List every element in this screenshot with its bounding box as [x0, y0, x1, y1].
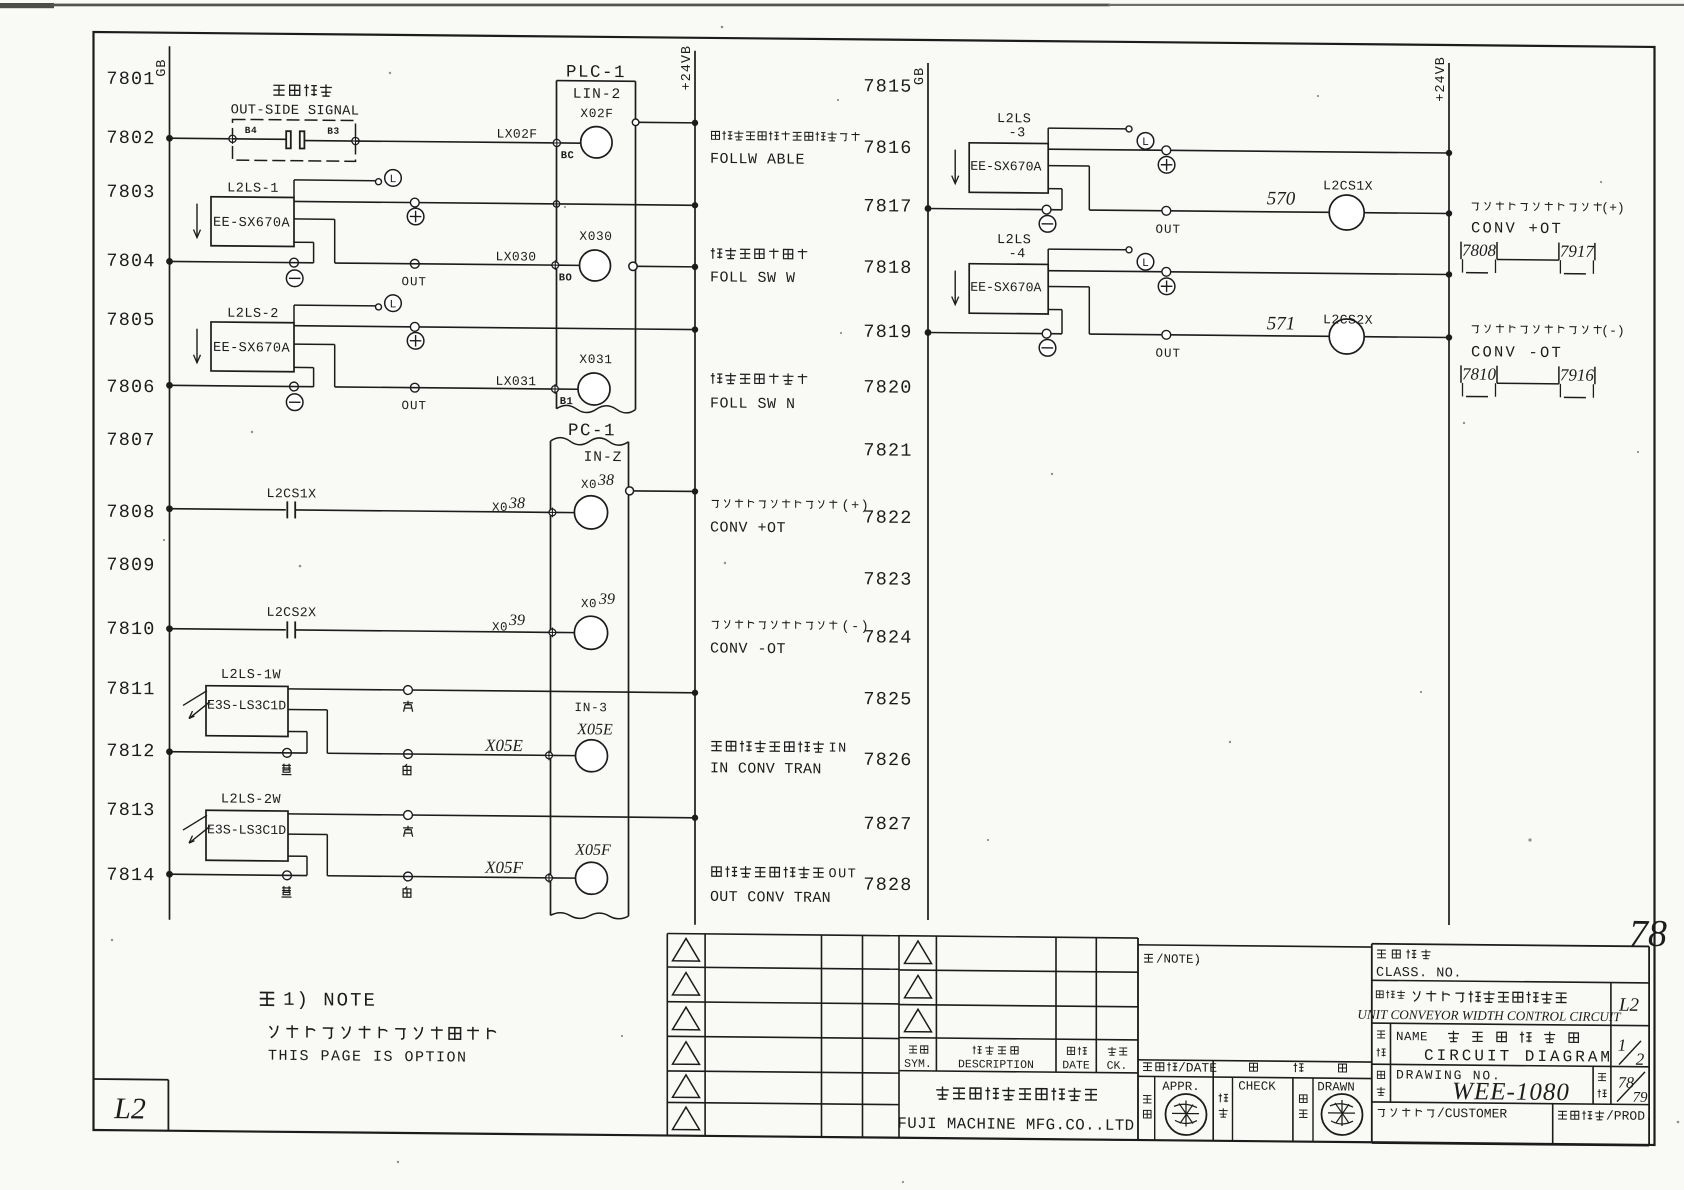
label black-wire L2LS-1W — [282, 764, 292, 775]
wire rung 7819 out segment — [1089, 334, 1329, 336]
page reference 7810 — [1461, 364, 1497, 396]
sensor L2LS-4 box — [969, 264, 1048, 314]
indicator lamp L L2LS-4 — [1137, 253, 1154, 270]
wire rung 7817 out segment — [1089, 210, 1329, 212]
rung label 7801 — [106, 69, 155, 90]
svg-text:7818: 7818 — [863, 257, 912, 278]
revision triangle L6 — [673, 1107, 700, 1130]
svg-text:-3: -3 — [1009, 126, 1026, 141]
svg-text:(+): (+) — [1601, 200, 1624, 215]
revision triangle L1 — [673, 938, 700, 961]
revision triangle L2 — [673, 972, 700, 995]
wire rung 7806 — [166, 382, 314, 390]
rung label 7818 — [863, 257, 912, 278]
svg-text:+24VB: +24VB — [1434, 56, 1449, 102]
svg-text:7916: 7916 — [1560, 365, 1594, 384]
svg-text:7803: 7803 — [106, 182, 155, 203]
label BC — [561, 150, 575, 162]
wire rung 7808 — [166, 505, 552, 516]
page reference 7808 — [1461, 241, 1497, 273]
label PLC-1 — [566, 63, 626, 84]
description conv+ot right english — [1471, 219, 1563, 238]
rung label 7820 — [863, 377, 912, 398]
wire rung 7804 out segment — [335, 263, 556, 265]
svg-text:L2CS2X: L2CS2X — [1323, 312, 1373, 327]
svg-text:L2CS2X: L2CS2X — [267, 605, 317, 620]
svg-text:-4: -4 — [1009, 247, 1026, 262]
label L2LS-2 — [227, 307, 279, 322]
rung label 7828 — [863, 875, 912, 896]
svg-text:/DATE: /DATE — [1178, 1060, 1217, 1075]
wire minus-return L2LS-4 — [1048, 309, 1062, 333]
svg-text:/CUSTOMER: /CUSTOMER — [1437, 1106, 1507, 1122]
wire rung 7812 out segment — [327, 753, 549, 755]
wire rung 7802 left segment — [170, 137, 233, 140]
junction PC edge X038 — [548, 507, 575, 517]
drawing row dividers — [1391, 1064, 1611, 1104]
svg-text:X02F: X02F — [580, 106, 613, 121]
label OUT L2LS-1 — [402, 275, 428, 289]
svg-text:LX031: LX031 — [495, 374, 536, 389]
wire L2CS1X to bus — [1364, 209, 1452, 216]
description conv-ot right japanese — [1472, 322, 1625, 338]
wire rung 7817 left — [925, 205, 1062, 213]
svg-text:CONV +OT: CONV +OT — [1471, 219, 1563, 238]
handwritten WEE-1080 — [1452, 1078, 1570, 1106]
label L2LS-2W — [221, 792, 282, 808]
svg-text:X0: X0 — [581, 597, 597, 611]
rung label 7827 — [863, 814, 912, 835]
svg-text:IN-3: IN-3 — [574, 700, 607, 715]
svg-text:7810: 7810 — [106, 619, 155, 640]
handwritten page number 78 — [1629, 913, 1667, 955]
indicator lamp L L2LS-1 — [385, 170, 402, 187]
svg-text:OUT CONV TRAN: OUT CONV TRAN — [710, 889, 831, 907]
scan artifact top edge — [0, 3, 1684, 8]
svg-text:1) NOTE: 1) NOTE — [283, 989, 377, 1012]
svg-text:X05F: X05F — [484, 858, 523, 877]
svg-text:OUT: OUT — [828, 867, 857, 882]
title block frame — [1372, 944, 1649, 1146]
svg-text:L2LS-1W: L2LS-1W — [221, 668, 282, 684]
svg-text:CONV -OT: CONV -OT — [710, 640, 786, 658]
svg-text:CHECK: CHECK — [1238, 1079, 1276, 1093]
rung label 7809 — [106, 555, 155, 576]
svg-text:7802: 7802 — [106, 128, 155, 149]
label B3 — [327, 126, 339, 137]
junction bus 7805 — [692, 326, 698, 332]
label NAME — [1396, 1030, 1428, 1044]
net label +24VB left — [680, 45, 695, 91]
note english line — [268, 1048, 468, 1067]
svg-text:EE-SX670A: EE-SX670A — [213, 341, 290, 357]
indicator lamp L L2LS-3 — [1137, 133, 1154, 150]
junction bus 7802 — [166, 135, 173, 142]
symbol plus L2LS-2 — [407, 332, 424, 349]
svg-text:LIN-2: LIN-2 — [573, 87, 622, 103]
wire black-return L2LS-2W — [288, 856, 307, 875]
label CIRCUIT DIAGRAM — [1424, 1047, 1613, 1067]
label L2CS2X right — [1323, 312, 1373, 327]
svg-text:X030: X030 — [579, 229, 612, 244]
PLC-1 block — [557, 81, 636, 413]
terminal minus L2LS-2 — [290, 382, 299, 391]
svg-text:FOLL SW N: FOLL SW N — [710, 395, 796, 413]
rung label 7824 — [863, 627, 912, 648]
coil X02F — [580, 106, 613, 158]
terminal B3 — [350, 136, 360, 146]
svg-text:+24VB: +24VB — [680, 45, 695, 91]
svg-text:7812: 7812 — [106, 741, 155, 762]
label L2CS1X — [267, 486, 317, 501]
wire minus-return L2LS-2 — [294, 367, 314, 386]
svg-text:L2LS: L2LS — [997, 112, 1031, 127]
svg-text:7821: 7821 — [863, 440, 912, 461]
label L2CS1X right — [1323, 178, 1373, 193]
wire OUT L2LS-1 — [294, 219, 335, 263]
label PC-1 — [568, 421, 616, 441]
coil X031 — [578, 352, 613, 405]
svg-text:SYM.: SYM. — [904, 1058, 932, 1071]
wire rung 7811 — [288, 686, 698, 696]
svg-text:7827: 7827 — [863, 814, 912, 835]
label red-wire L2LS-2W — [403, 826, 413, 837]
description follow-able japanese — [712, 130, 860, 141]
terminal minus L2LS-1 — [290, 258, 299, 267]
rung label 7816 — [863, 138, 912, 159]
handwritten 571 — [1267, 313, 1295, 334]
svg-text:7816: 7816 — [863, 138, 912, 159]
label date — [1143, 1060, 1217, 1076]
svg-text:(-): (-) — [1601, 323, 1624, 338]
terminal white L2LS-1W — [404, 750, 413, 759]
svg-text:CK.: CK. — [1107, 1060, 1128, 1073]
rung label 7823 — [863, 569, 912, 590]
terminal white L2LS-2W — [404, 872, 413, 881]
terminal red L2LS-2W — [404, 811, 413, 820]
svg-text:B1: B1 — [560, 396, 574, 408]
label day — [1339, 1064, 1347, 1072]
svg-text:L: L — [390, 173, 397, 186]
svg-text:FOLL SW W: FOLL SW W — [710, 269, 796, 287]
svg-text:NAME: NAME — [1396, 1030, 1428, 1044]
label X039 wire — [492, 612, 525, 635]
label white-wire L2LS-2W — [403, 887, 411, 898]
contact circle L2CS2X — [1329, 319, 1364, 354]
symbol plus L2LS-4 — [1158, 278, 1175, 295]
arrow light-beam L2LS-1W — [183, 690, 210, 718]
svg-text:L2LS-1: L2LS-1 — [227, 181, 279, 196]
svg-text:39: 39 — [598, 591, 615, 608]
svg-text:OUT: OUT — [1156, 347, 1182, 361]
label machine name kanji — [1376, 990, 1566, 1004]
svg-text:OUT: OUT — [1156, 223, 1182, 237]
revision triangle M3 — [905, 1009, 932, 1032]
symbol minus L2LS-3 — [1039, 215, 1056, 232]
terminal plus L2LS-1 — [410, 198, 419, 207]
svg-text:7819: 7819 — [863, 322, 912, 343]
contact L2CS1X — [287, 501, 295, 518]
label red-wire L2LS-1W — [403, 701, 413, 712]
svg-text:571: 571 — [1267, 313, 1295, 334]
bus GB right ladder — [927, 63, 929, 920]
description conv-ot english — [710, 640, 786, 658]
svg-text:L2LS-2: L2LS-2 — [227, 307, 279, 322]
handwritten 570 — [1267, 188, 1296, 209]
svg-text:L2: L2 — [113, 1092, 146, 1125]
wire rung 7802 to PLC — [356, 141, 557, 143]
company name japanese — [936, 1086, 1097, 1101]
label IN-Z — [584, 450, 623, 466]
terminal plus L2LS-2 — [410, 322, 419, 331]
arrow light-beam L2LS-1 — [194, 204, 201, 238]
revision table middle — [899, 936, 1138, 1140]
label L2LS-1W — [221, 668, 282, 684]
wire rung 7805 — [294, 326, 695, 330]
svg-text:38: 38 — [508, 495, 525, 512]
svg-text:7808: 7808 — [1462, 241, 1496, 260]
sensor L2LS-1 box — [211, 197, 294, 247]
arrow light-beam L2LS-4 — [952, 271, 959, 305]
terminal black L2LS-1W — [283, 748, 292, 757]
svg-text:L2LS-2W: L2LS-2W — [221, 792, 282, 808]
net label +24VB right — [1434, 56, 1449, 102]
label BO — [559, 272, 573, 284]
wire reference link bottom — [1497, 382, 1559, 385]
label LX02F — [496, 126, 537, 141]
header DATE — [1062, 1047, 1090, 1073]
customer row divider — [1552, 1104, 1554, 1145]
label OUT-SIDE SIGNAL — [231, 103, 360, 119]
svg-text:L2CS1X: L2CS1X — [1323, 178, 1373, 193]
junction BO — [550, 260, 579, 270]
sheet code box L2 — [94, 1079, 169, 1131]
description out-conv-tran english — [710, 889, 831, 907]
svg-text:THIS PAGE IS OPTION: THIS PAGE IS OPTION — [268, 1048, 468, 1067]
svg-text:OUT: OUT — [402, 275, 428, 289]
svg-text:APPR.: APPR. — [1162, 1080, 1200, 1094]
svg-text:EE-SX670A: EE-SX670A — [213, 216, 290, 232]
label white-wire L2LS-1W — [403, 764, 411, 775]
svg-text:FOLLW ABLE: FOLLW ABLE — [710, 151, 805, 169]
svg-text:7801: 7801 — [106, 69, 155, 90]
wire reference link top — [1497, 258, 1559, 261]
label X038 wire — [492, 495, 525, 515]
terminal plus L2LS-3 — [1162, 146, 1171, 155]
terminal L L2LS-4 — [1126, 247, 1132, 253]
wire rung 7810 — [166, 625, 552, 636]
svg-text:7809: 7809 — [106, 555, 155, 576]
rung label 7804 — [106, 251, 155, 272]
symbol minus L2LS-1 — [286, 270, 303, 287]
stamp drafter — [1322, 1094, 1363, 1135]
coil X030 — [579, 229, 612, 281]
label B4 — [245, 125, 257, 136]
revision triangle L4 — [673, 1042, 700, 1065]
label month — [1294, 1063, 1304, 1072]
wire rung 7806 out segment — [335, 387, 555, 389]
wire OUT L2LS-2 — [294, 344, 335, 387]
junction PC edge X05E — [544, 750, 575, 760]
wire rung 7812 — [166, 748, 307, 756]
svg-text:/NOTE): /NOTE) — [1156, 952, 1201, 966]
rung label 7810 — [106, 619, 155, 640]
row machine-name divider — [1610, 983, 1612, 1026]
svg-text:7804: 7804 — [106, 251, 155, 272]
svg-text:CONV +OT: CONV +OT — [710, 519, 786, 537]
svg-text:X031: X031 — [579, 352, 612, 367]
terminal plus L2LS-4 — [1162, 267, 1171, 276]
svg-text:EE-SX670A: EE-SX670A — [970, 280, 1041, 296]
header CK — [1107, 1047, 1128, 1073]
svg-text:DESCRIPTION: DESCRIPTION — [958, 1058, 1034, 1072]
svg-text:IN-Z: IN-Z — [584, 450, 623, 466]
svg-text:X05F: X05F — [574, 842, 611, 859]
junction PLC edge 7803 — [552, 199, 561, 208]
svg-text:L2: L2 — [1618, 995, 1640, 1016]
wire rung 7804 — [166, 258, 314, 266]
label X05F wire — [484, 858, 523, 877]
svg-text:FUJI MACHINE MFG.CO..LTD: FUJI MACHINE MFG.CO..LTD — [897, 1115, 1134, 1135]
description foll-sw-n japanese — [711, 373, 807, 385]
rung label 7819 — [863, 322, 912, 343]
terminal L L2LS-3 — [1126, 126, 1132, 132]
svg-text:E3S-LS3C1D: E3S-LS3C1D — [207, 822, 286, 838]
terminal L L2LS-1 — [376, 179, 382, 185]
label name column — [1377, 1031, 1386, 1057]
bus +24VB right ladder — [1448, 63, 1450, 925]
svg-text:7823: 7823 — [863, 569, 912, 590]
wire rung 7813 — [288, 811, 698, 821]
description conv+ot right japanese — [1472, 199, 1625, 215]
rung label 7825 — [863, 689, 912, 710]
svg-text:LX02F: LX02F — [496, 126, 537, 141]
label unit conveyor width control circuit — [1357, 1007, 1622, 1025]
rung label 7826 — [863, 750, 912, 771]
svg-text:7917: 7917 — [1560, 242, 1595, 261]
svg-text:L2LS: L2LS — [997, 233, 1031, 248]
svg-text:/PROD.: /PROD. — [1606, 1109, 1653, 1124]
symbol plus L2LS-1 — [407, 208, 424, 225]
svg-text:X0: X0 — [492, 501, 508, 515]
svg-text:7817: 7817 — [863, 196, 912, 217]
label B1 — [560, 396, 574, 408]
label LX031 — [495, 374, 536, 389]
stamp approver — [1166, 1094, 1207, 1135]
svg-text:7814: 7814 — [106, 865, 155, 886]
sensor L2LS-3 box — [969, 143, 1048, 193]
handwritten 78/79 — [1617, 1072, 1648, 1106]
terminal OUT L2LS-4 — [1162, 330, 1171, 339]
header DESCRIPTION — [958, 1045, 1034, 1072]
revision triangle M1 — [905, 941, 932, 964]
rung label 7805 — [106, 310, 155, 331]
terminal red L2LS-1W — [404, 686, 413, 695]
label L2LS-3 — [997, 112, 1031, 141]
wire rung 7803 — [294, 201, 695, 205]
svg-text:7808: 7808 — [106, 502, 155, 523]
revision triangle L5 — [673, 1075, 700, 1098]
header SYM — [904, 1046, 932, 1071]
description out-conv-tran japanese — [712, 866, 857, 883]
label customer — [1378, 1105, 1508, 1121]
rung label 7802 — [106, 128, 155, 149]
svg-text:DATE: DATE — [1062, 1059, 1090, 1072]
svg-text:7810: 7810 — [1462, 364, 1496, 383]
note japanese line — [270, 1025, 496, 1040]
svg-text:L: L — [1142, 257, 1149, 270]
bus +24VB left ladder — [694, 51, 696, 925]
wire X038 output — [626, 487, 699, 496]
svg-text:CIRCUIT DIAGRAM: CIRCUIT DIAGRAM — [1424, 1047, 1613, 1067]
terminal OUT L2LS-3 — [1162, 206, 1171, 215]
arrow light-beam L2LS-2 — [194, 329, 201, 363]
arrow light-beam L2LS-3 — [952, 150, 959, 184]
wire OUT L2LS-4 — [1048, 286, 1089, 334]
revision triangle M2 — [905, 975, 932, 998]
label LIN-2 — [573, 87, 622, 103]
description in-conv-tran japanese — [711, 740, 847, 757]
svg-text:IN CONV TRAN: IN CONV TRAN — [710, 760, 822, 778]
svg-text:X05E: X05E — [576, 721, 613, 738]
svg-text:B4: B4 — [245, 125, 257, 136]
wire L2CS2X to bus — [1364, 333, 1452, 340]
svg-text:EE-SX670A: EE-SX670A — [970, 159, 1041, 175]
coil X038 — [574, 472, 614, 530]
description foll-sw-n english — [710, 395, 796, 413]
svg-text:L2CS1X: L2CS1X — [267, 486, 317, 501]
label L2LS-1 — [227, 181, 279, 196]
page reference 7916 — [1559, 365, 1595, 397]
label APPR — [1143, 1080, 1200, 1119]
svg-text:7811: 7811 — [106, 679, 155, 700]
wire rung 7816 — [1048, 146, 1452, 156]
symbol minus L2LS-2 — [286, 394, 303, 411]
wire rung 7814 out segment — [327, 876, 549, 878]
label DRAWING NO — [1396, 1068, 1502, 1084]
wire rung 7818 — [1048, 267, 1452, 277]
wire rung 7814 — [166, 871, 307, 879]
description foll-sw-w english — [710, 269, 796, 287]
terminal minus L2LS-3 — [1042, 205, 1051, 214]
sensor L2LS-2 box — [211, 322, 294, 372]
date strip — [1138, 1060, 1372, 1142]
wire black-return L2LS-1W — [288, 731, 307, 753]
svg-text:7805: 7805 — [106, 310, 155, 331]
wire OUT L2LS-3 — [1048, 166, 1089, 210]
label note — [1144, 952, 1201, 967]
svg-text:2: 2 — [1636, 1050, 1645, 1069]
wire L-branch L2LS-4 — [1048, 249, 1126, 265]
description conv-ot right english — [1471, 343, 1563, 362]
svg-text:79: 79 — [1633, 1090, 1648, 1106]
handwritten L2 class — [1618, 995, 1640, 1016]
terminal black L2LS-2W — [283, 871, 292, 880]
label prod no — [1558, 1108, 1653, 1124]
svg-text:L: L — [390, 298, 397, 311]
name row divider — [1391, 1023, 1611, 1066]
note box — [1138, 945, 1372, 947]
svg-text:7806: 7806 — [106, 377, 155, 398]
svg-text:39: 39 — [508, 612, 525, 629]
svg-text:UNIT CONVEYOR WIDTH CONTROL CI: UNIT CONVEYOR WIDTH CONTROL CIRCUIT — [1357, 1007, 1622, 1025]
svg-text:E3S-LS3C1D: E3S-LS3C1D — [207, 698, 286, 714]
rung label 7803 — [106, 182, 155, 203]
svg-text:PC-1: PC-1 — [568, 421, 616, 441]
svg-text:BO: BO — [559, 272, 573, 284]
svg-text:WEE-1080: WEE-1080 — [1452, 1078, 1570, 1106]
label L2LS-4 — [997, 233, 1031, 262]
